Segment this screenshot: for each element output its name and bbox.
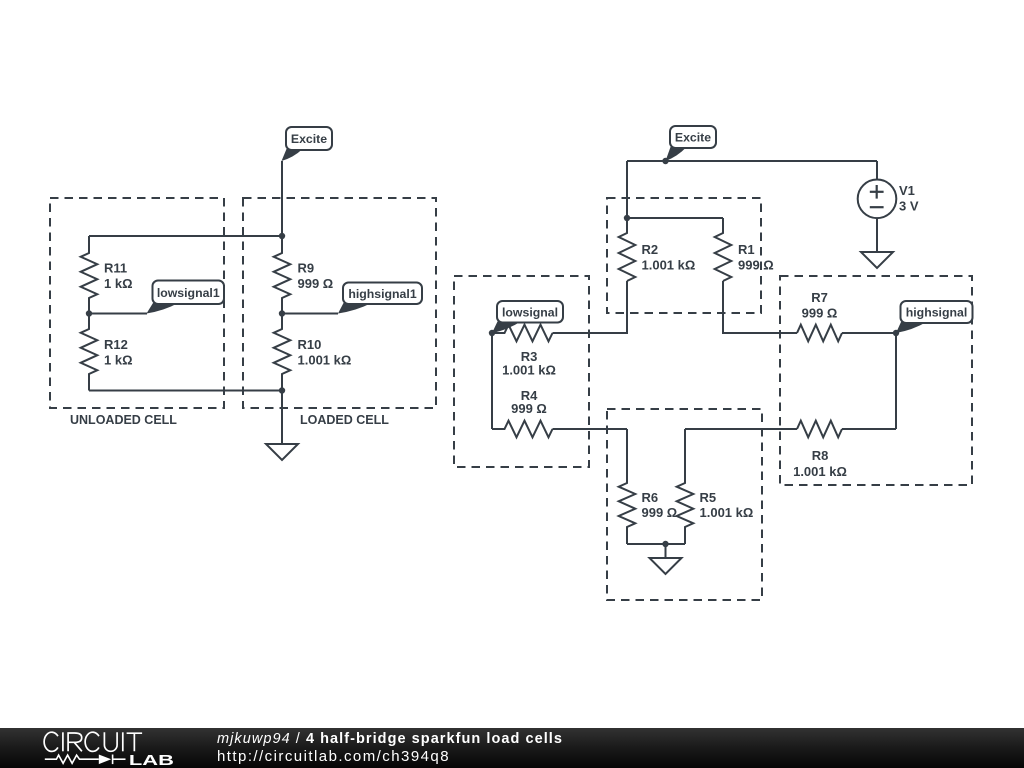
node highsignal junction — [893, 330, 899, 336]
CircuitLab logo — [0, 728, 200, 768]
resistor R2 — [619, 218, 696, 281]
logo word CIRCUIT — [44, 732, 142, 751]
node excite junction right — [662, 158, 668, 164]
wire top rail of cells — [89, 235, 282, 237]
net flag highsignal — [896, 301, 973, 333]
node highsignal1 junction — [279, 310, 285, 316]
dashed box UNLOADED CELL — [50, 198, 224, 408]
node excite junction left — [279, 233, 285, 239]
wire bridge top inner — [627, 217, 723, 219]
svg-text:1.001 kΩ: 1.001 kΩ — [298, 353, 352, 368]
ground V1 — [861, 252, 893, 268]
resistor R10 — [274, 314, 352, 391]
dashed box LOADED CELL — [243, 198, 436, 408]
dashed box bridge right — [780, 276, 972, 485]
resistor R7 — [797, 290, 842, 341]
wire Excite rail right — [627, 160, 877, 162]
footer url line — [217, 748, 450, 765]
svg-text:999 Ω: 999 Ω — [511, 401, 547, 416]
footer title line — [217, 731, 563, 747]
wire bottom rail of cells — [89, 390, 282, 392]
node ground junction left — [279, 387, 285, 393]
logo diode triangle — [99, 755, 111, 765]
svg-text:R10: R10 — [298, 337, 322, 352]
svg-text:999 Ω: 999 Ω — [642, 505, 678, 520]
wire R8 right lead — [842, 428, 896, 430]
node R2 top junction — [624, 215, 630, 221]
wire bridge to ground — [665, 544, 667, 558]
net flag highsignal1 — [338, 283, 422, 314]
resistor R12 — [81, 314, 133, 391]
logo resistor-diode symbol — [45, 755, 126, 765]
wire Excite flag to top node — [281, 161, 283, 236]
wire R1 to R7 — [723, 281, 797, 333]
wire loaded cell to ground — [281, 391, 283, 445]
resistor R6 — [619, 429, 678, 544]
net flag Excite right — [666, 126, 717, 161]
wire bottom bridge rail — [627, 543, 685, 545]
svg-text:R6: R6 — [642, 490, 659, 505]
node ground junction bridge — [662, 541, 668, 547]
svg-text:1.001 kΩ: 1.001 kΩ — [502, 363, 556, 378]
svg-text:R1: R1 — [738, 242, 755, 257]
wire R5 to R8 — [685, 428, 797, 430]
ground left — [266, 444, 298, 460]
svg-text:R8: R8 — [812, 448, 829, 463]
svg-text:1.001 kΩ: 1.001 kΩ — [642, 258, 696, 273]
wire Excite to V1 — [876, 161, 878, 181]
svg-text:1.001 kΩ: 1.001 kΩ — [793, 464, 847, 479]
wire V1 to ground — [876, 217, 878, 252]
wire lowsignal1 node to flag — [89, 313, 147, 315]
svg-text:1 kΩ: 1 kΩ — [104, 353, 133, 368]
svg-text:Excite: Excite — [291, 132, 327, 146]
footer bar — [0, 728, 1024, 768]
net flag lowsignal — [492, 301, 563, 333]
svg-text:1 kΩ: 1 kΩ — [104, 276, 133, 291]
svg-text:V1: V1 — [899, 183, 915, 198]
svg-text:LOADED CELL: LOADED CELL — [300, 413, 389, 427]
resistor R5 — [677, 429, 754, 544]
svg-text:R2: R2 — [642, 242, 659, 257]
svg-text:Excite: Excite — [675, 131, 711, 145]
svg-text:UNLOADED CELL: UNLOADED CELL — [70, 413, 177, 427]
svg-text:R7: R7 — [811, 290, 828, 305]
wire R4 to R6 — [553, 428, 628, 430]
net flag Excite left — [282, 127, 333, 161]
dashed box bridge left — [454, 276, 589, 467]
svg-text:999 Ω: 999 Ω — [802, 306, 838, 321]
node lowsignal1 junction — [86, 310, 92, 316]
node lowsignal junction — [489, 330, 495, 336]
dashed box bridge top — [607, 198, 761, 313]
resistor R3 — [492, 325, 556, 378]
net flag lowsignal1 — [147, 281, 225, 314]
svg-text:999 Ω: 999 Ω — [298, 276, 334, 291]
svg-text:999 Ω: 999 Ω — [738, 258, 774, 273]
resistor R9 — [274, 236, 334, 314]
svg-text:3 V: 3 V — [899, 199, 919, 214]
wire highsignal1 node to flag — [282, 313, 338, 315]
svg-text:lowsignal: lowsignal — [502, 305, 558, 319]
wire lowsignal node to R4 — [491, 333, 493, 429]
wire highsignal node to R8 — [895, 333, 897, 429]
svg-text:lowsignal1: lowsignal1 — [157, 286, 220, 300]
svg-text:R12: R12 — [104, 337, 128, 352]
ground bridge — [650, 558, 682, 574]
resistor R4 — [492, 388, 553, 437]
svg-text:highsignal: highsignal — [906, 306, 968, 320]
voltage source V1 — [858, 180, 919, 219]
svg-text:highsignal1: highsignal1 — [348, 287, 416, 301]
svg-text:R5: R5 — [700, 490, 717, 505]
resistor R1 — [715, 218, 774, 281]
svg-text:R11: R11 — [104, 261, 127, 276]
svg-text:LAB: LAB — [129, 753, 174, 768]
wire R2 to R3 (lowsignal row) — [553, 281, 628, 333]
svg-text:1.001 kΩ: 1.001 kΩ — [700, 505, 754, 520]
svg-text:R9: R9 — [298, 261, 315, 276]
resistor R11 — [81, 236, 133, 314]
resistor R8 — [793, 421, 847, 479]
dashed box bridge bottom — [607, 409, 762, 600]
wire R7 to highsignal node — [842, 332, 896, 334]
wire Excite to R2 branch — [626, 161, 628, 218]
